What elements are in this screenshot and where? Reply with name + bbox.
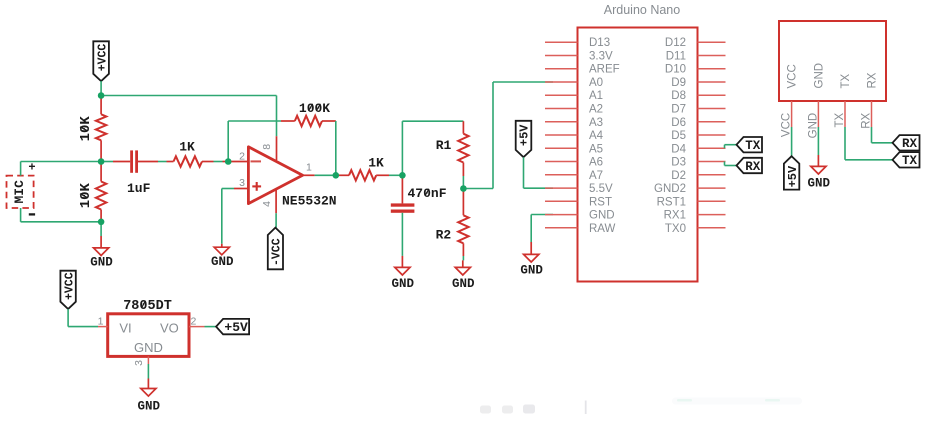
wire D4 to TX flag bbox=[725, 145, 737, 149]
svg-text:VCC: VCC bbox=[787, 64, 799, 88]
Arduino pin D11 (right stub) bbox=[666, 51, 726, 63]
svg-text:RX: RX bbox=[860, 112, 872, 128]
svg-text:A1: A1 bbox=[589, 90, 603, 102]
node: mic / divider junction bbox=[98, 158, 105, 165]
7805 pin 3 stub bbox=[133, 356, 149, 366]
svg-text:D9: D9 bbox=[671, 77, 686, 89]
capacitor C1 1uF bbox=[127, 150, 151, 196]
svg-text:+5V: +5V bbox=[224, 320, 248, 335]
svg-text:D13: D13 bbox=[589, 37, 610, 49]
net flag RX (module) bbox=[893, 135, 920, 151]
Arduino pin A6 (left stub) bbox=[545, 157, 603, 169]
svg-text:D5: D5 bbox=[671, 130, 686, 142]
svg-text:D10: D10 bbox=[665, 64, 686, 76]
wire +5V to 5.5V pin bbox=[524, 157, 554, 188]
net flag TX (Arduino D4) bbox=[737, 137, 763, 153]
svg-text:TX: TX bbox=[834, 112, 846, 127]
node: filter node bbox=[399, 172, 406, 179]
ground (regulator) bbox=[138, 379, 161, 414]
Arduino pin D3 (right stub) bbox=[671, 157, 725, 169]
svg-text:RST1: RST1 bbox=[657, 196, 686, 208]
svg-text:RAW: RAW bbox=[589, 223, 616, 235]
op-amp U1 NE5532N bbox=[248, 147, 336, 209]
Arduino pin RX1 (right stub) bbox=[664, 210, 726, 222]
Arduino pin A7 (left stub) bbox=[545, 170, 603, 182]
op-amp pin 4 stub bbox=[261, 189, 276, 213]
svg-text:GND: GND bbox=[452, 277, 475, 291]
resistor R1 bbox=[436, 121, 469, 176]
wire C2 to ground bbox=[401, 213, 403, 256]
resistor R 10K (upper bias) bbox=[78, 96, 107, 162]
resistor R 10K (lower bias) bbox=[78, 162, 107, 222]
svg-text:VO: VO bbox=[160, 320, 179, 335]
wire junction to C1 bbox=[101, 161, 130, 163]
svg-text:7805DT: 7805DT bbox=[123, 299, 172, 314]
MIC - terminal label bbox=[29, 213, 35, 215]
svg-text:D11: D11 bbox=[666, 51, 686, 63]
svg-text:R2: R2 bbox=[436, 228, 452, 243]
svg-text:+VCC: +VCC bbox=[96, 44, 109, 72]
wire C1 to R3 bbox=[138, 161, 174, 163]
module pin GND (inside label) bbox=[814, 63, 826, 89]
svg-text:3: 3 bbox=[239, 177, 245, 189]
wire pin 4 to -VCC bbox=[275, 213, 277, 227]
svg-text:+5V: +5V bbox=[518, 124, 532, 146]
wire R3 to pin 2 node bbox=[202, 161, 228, 163]
wire module RX to RX flag bbox=[872, 127, 893, 143]
svg-text:RX1: RX1 bbox=[664, 210, 686, 222]
Arduino pin A5 (left stub) bbox=[545, 143, 603, 155]
regulator U4 7805DT body bbox=[108, 299, 189, 356]
svg-text:D7: D7 bbox=[671, 104, 686, 116]
wire D3 to RX flag bbox=[725, 162, 737, 166]
svg-text:R1: R1 bbox=[436, 138, 452, 153]
svg-text:D8: D8 bbox=[671, 90, 686, 102]
wire +VCC flag to rail bbox=[100, 81, 102, 95]
Arduino pin RAW (left stub) bbox=[545, 223, 616, 235]
svg-text:A6: A6 bbox=[589, 157, 603, 169]
Arduino pin D7 (right stub) bbox=[671, 104, 725, 116]
svg-text:Arduino Nano: Arduino Nano bbox=[604, 3, 680, 17]
svg-text:GND: GND bbox=[814, 63, 826, 89]
resistor R5 1K (output) bbox=[349, 156, 384, 181]
svg-text:2: 2 bbox=[239, 150, 245, 162]
wire module GND bbox=[817, 127, 819, 155]
svg-text:TX: TX bbox=[902, 154, 918, 168]
resistor R3 1K (input) bbox=[174, 139, 203, 166]
svg-text:8: 8 bbox=[261, 144, 273, 150]
Arduino pin A3 (left stub) bbox=[545, 117, 603, 129]
module pin TX (inside label) bbox=[840, 73, 852, 88]
svg-text:1uF: 1uF bbox=[127, 181, 151, 196]
module pin RX (inside label) bbox=[867, 72, 879, 88]
Arduino pin 3.3V (left stub) bbox=[545, 51, 613, 63]
Arduino pin A2 (left stub) bbox=[545, 104, 603, 116]
Arduino pin D5 (right stub) bbox=[671, 130, 725, 142]
power flag +VCC (regulator) bbox=[60, 271, 76, 309]
svg-text:1K: 1K bbox=[179, 139, 195, 154]
Arduino Nano U2 body bbox=[578, 3, 698, 282]
power flag -VCC bbox=[268, 228, 284, 270]
svg-text:470nF: 470nF bbox=[408, 186, 447, 201]
7805 pin 2 stub bbox=[189, 316, 205, 328]
ground (below C2) bbox=[392, 256, 415, 291]
svg-text:D4: D4 bbox=[671, 143, 686, 155]
svg-text:1: 1 bbox=[98, 316, 104, 328]
svg-text:GND: GND bbox=[807, 113, 819, 139]
Arduino pin RST1 (right stub) bbox=[657, 196, 726, 208]
svg-text:+5V: +5V bbox=[786, 165, 800, 187]
svg-text:D3: D3 bbox=[671, 157, 686, 169]
op-amp U1 pin 8 stub bbox=[261, 136, 276, 160]
Arduino pin D13 (left stub) bbox=[545, 37, 610, 49]
svg-text:VI: VI bbox=[119, 320, 131, 335]
capacitor C2 470nF bbox=[391, 175, 447, 213]
svg-text:GND: GND bbox=[808, 177, 831, 191]
wire R1 to divider node bbox=[462, 176, 464, 189]
op-amp pin 3 stub bbox=[234, 177, 248, 189]
module pin RX stub bbox=[860, 101, 872, 129]
svg-text:A3: A3 bbox=[589, 117, 603, 129]
wire filter node to R1 top bbox=[402, 121, 463, 175]
svg-text:GND: GND bbox=[138, 399, 161, 413]
svg-text:D2: D2 bbox=[671, 170, 686, 182]
resistor R2 bbox=[436, 189, 469, 261]
Arduino pin D9 (right stub) bbox=[671, 77, 725, 89]
svg-text:A0: A0 bbox=[589, 77, 603, 89]
wire +VCC to VI bbox=[68, 309, 98, 327]
Arduino pin TX0 (right stub) bbox=[665, 223, 726, 235]
svg-text:1: 1 bbox=[306, 161, 312, 173]
svg-text:TX: TX bbox=[840, 73, 852, 88]
svg-text:NE5532N: NE5532N bbox=[282, 194, 337, 209]
op-amp pin 1 stub bbox=[303, 161, 315, 175]
node: top rail junction bbox=[98, 92, 105, 99]
svg-text:TX0: TX0 bbox=[665, 223, 686, 235]
MIC + terminal label bbox=[28, 161, 35, 175]
svg-text:1K: 1K bbox=[368, 156, 384, 171]
wire output to R5 bbox=[336, 174, 349, 176]
svg-text:100K: 100K bbox=[299, 101, 330, 116]
svg-text:RX: RX bbox=[867, 72, 879, 88]
svg-text:D6: D6 bbox=[671, 117, 686, 129]
Arduino pin D12 (right stub) bbox=[665, 37, 726, 49]
wire MIC - to junction bbox=[21, 208, 102, 222]
Arduino pin D4 (right stub) bbox=[671, 143, 725, 155]
wire module TX to TX flag bbox=[845, 127, 893, 160]
net flag +5V (regulator out) bbox=[216, 319, 249, 335]
module pin TX stub bbox=[834, 101, 846, 128]
wire MIC + to junction bbox=[21, 162, 102, 176]
ground (op-amp pin 3) bbox=[211, 244, 234, 269]
svg-text:2: 2 bbox=[191, 316, 197, 328]
svg-text:GND: GND bbox=[520, 264, 543, 278]
Arduino pin 5.5V (left stub) bbox=[545, 183, 613, 195]
Arduino pin D2 (right stub) bbox=[671, 170, 725, 182]
Arduino pin A1 (left stub) bbox=[545, 90, 603, 102]
svg-text:GND: GND bbox=[134, 340, 163, 355]
svg-text:MIC: MIC bbox=[12, 180, 27, 204]
svg-text:GND2: GND2 bbox=[654, 183, 686, 195]
svg-text:A4: A4 bbox=[589, 130, 604, 142]
ground (module) bbox=[808, 155, 831, 191]
svg-text:10K: 10K bbox=[78, 183, 94, 209]
wire Arduino GND pin bbox=[531, 215, 553, 243]
Arduino pin D6 (right stub) bbox=[671, 117, 725, 129]
svg-text:-VCC: -VCC bbox=[271, 238, 284, 266]
Arduino pin AREF (left stub) bbox=[545, 64, 620, 76]
wire feedback to output node bbox=[322, 121, 336, 175]
power flag +5V (Arduino) bbox=[516, 121, 532, 157]
ground (below divider) bbox=[90, 222, 113, 269]
net flag TX (module) bbox=[893, 152, 920, 168]
svg-text:GND: GND bbox=[392, 277, 415, 291]
svg-text:RST: RST bbox=[589, 196, 612, 208]
svg-text:4: 4 bbox=[261, 201, 273, 207]
wire feedback riser bbox=[228, 121, 295, 162]
Arduino pin D10 (right stub) bbox=[665, 64, 726, 76]
module pin GND stub bbox=[807, 101, 819, 138]
node: op-amp output bbox=[333, 172, 340, 179]
svg-text:5.5V: 5.5V bbox=[589, 183, 613, 195]
node: R1/R2 divider bbox=[460, 185, 467, 192]
wire top rail to op-amp pin 8 bbox=[101, 96, 276, 137]
module pin VCC stub bbox=[781, 101, 793, 137]
node: inverting input bbox=[225, 158, 232, 165]
power flag +VCC (input stage) bbox=[93, 41, 109, 81]
svg-text:3: 3 bbox=[133, 360, 145, 366]
ground (Arduino) bbox=[520, 242, 543, 278]
watermark (faint) bbox=[480, 398, 802, 415]
svg-text:RX: RX bbox=[745, 160, 761, 174]
svg-text:3.3V: 3.3V bbox=[589, 51, 613, 63]
Arduino pin D8 (right stub) bbox=[671, 90, 725, 102]
wire pin 3 to ground bbox=[147, 364, 149, 379]
svg-text:+VCC: +VCC bbox=[63, 272, 76, 300]
wire pin 3 to ground bbox=[222, 189, 234, 244]
svg-text:+: + bbox=[28, 161, 35, 175]
Arduino pin RST (left stub) bbox=[545, 196, 612, 208]
Arduino pin GND (left stub) bbox=[545, 210, 615, 222]
wire VO to +5V flag bbox=[205, 326, 217, 328]
wire divider node to Arduino A0 bbox=[463, 82, 553, 189]
svg-text:A5: A5 bbox=[589, 143, 603, 155]
ground (below R2) bbox=[452, 260, 475, 291]
svg-text:GND: GND bbox=[90, 255, 113, 269]
module pin VCC (inside label) bbox=[787, 64, 799, 88]
Arduino pin A0 (left stub) bbox=[545, 77, 603, 89]
net flag RX (Arduino D3) bbox=[737, 158, 763, 174]
svg-text:10K: 10K bbox=[78, 116, 94, 142]
node: lower junction bbox=[98, 219, 105, 226]
svg-text:GND: GND bbox=[211, 255, 234, 269]
svg-text:TX: TX bbox=[745, 139, 761, 153]
wire R5 to filter node bbox=[376, 174, 402, 176]
microphone MIC (dashed body) bbox=[7, 176, 34, 208]
Arduino pin A4 (left stub) bbox=[545, 130, 604, 142]
resistor R4 100K (feedback) bbox=[295, 101, 330, 126]
svg-text:D12: D12 bbox=[665, 37, 686, 49]
7805 pin 1 stub bbox=[98, 316, 108, 328]
op-amp U1 pin 2 stub bbox=[228, 150, 248, 162]
wire module VCC to +5V bbox=[791, 127, 793, 156]
svg-text:GND: GND bbox=[589, 210, 615, 222]
Arduino pin GND2 (right stub) bbox=[654, 183, 725, 195]
wire op-amp output bbox=[315, 174, 336, 176]
power flag +5V (module) bbox=[784, 156, 800, 189]
svg-text:A2: A2 bbox=[589, 104, 603, 116]
svg-text:VCC: VCC bbox=[781, 113, 793, 137]
module U3 body bbox=[779, 21, 886, 101]
svg-text:RX: RX bbox=[902, 137, 918, 151]
svg-text:A7: A7 bbox=[589, 170, 603, 182]
svg-text:AREF: AREF bbox=[589, 64, 620, 76]
